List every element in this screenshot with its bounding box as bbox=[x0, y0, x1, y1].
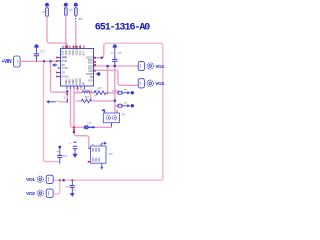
svg-text:C?: C? bbox=[66, 185, 70, 189]
resistor R4 bbox=[94, 87, 106, 96]
ground flag mid bbox=[69, 142, 77, 158]
svg-text:R?: R? bbox=[98, 87, 102, 91]
power arrow B1 bbox=[45, 3, 49, 8]
svg-text:SW2: SW2 bbox=[88, 62, 94, 64]
bead FB3 run3 bbox=[118, 104, 122, 107]
connector J4 VO1 bbox=[26, 175, 53, 183]
node dot COMP pin bbox=[96, 72, 101, 75]
capacitor C2 above VG1 bbox=[111, 44, 118, 66]
IC U2 left-bottom pin bbox=[88, 161, 91, 163]
svg-text:C?: C? bbox=[40, 49, 44, 53]
IC U1 left pins bbox=[58, 58, 61, 77]
junction dots IC left pins bbox=[56, 56, 58, 77]
inductor PL1 body bbox=[46, 8, 49, 16]
svg-text:VDD1: VDD1 bbox=[73, 49, 75, 56]
net tick VIN a bbox=[43, 60, 45, 62]
ferrite bead FB1 body bbox=[64, 8, 67, 15]
wire x107.6 vertical bbox=[107, 66, 109, 93]
svg-text:SS: SS bbox=[62, 72, 66, 74]
svg-text:U?: U? bbox=[109, 152, 113, 156]
svg-text:R?: R? bbox=[85, 95, 89, 99]
connector J1 +VIN bbox=[2, 56, 21, 67]
junction dots IC top pins bbox=[65, 46, 81, 48]
svg-text:VCC: VCC bbox=[80, 50, 82, 55]
net tick VIN b bbox=[50, 60, 52, 62]
pin dash below drop B bbox=[66, 90, 68, 102]
svg-text:+: + bbox=[69, 142, 71, 146]
wire pin77 stub to run1 bbox=[77, 89, 79, 93]
svg-text:+VIN: +VIN bbox=[2, 59, 12, 65]
svg-text:PGND: PGND bbox=[80, 78, 82, 85]
svg-text:VIN1: VIN1 bbox=[62, 50, 64, 56]
wire VIN net bbox=[20, 60, 57, 62]
wire pin81 corner to run2 bbox=[81, 88, 91, 101]
svg-text:VG2: VG2 bbox=[155, 81, 164, 87]
label R3 bbox=[79, 17, 83, 21]
IC U1 right pin labels bbox=[86, 57, 94, 82]
wire big loop net bbox=[54, 43, 163, 180]
IC U2 body bbox=[91, 145, 107, 164]
net tick x74 bbox=[73, 131, 75, 133]
svg-text:VO1: VO1 bbox=[26, 177, 35, 183]
wire run3 bbox=[115, 105, 118, 107]
svg-text:VIN3: VIN3 bbox=[69, 50, 71, 56]
IC U2 left-top pin bbox=[88, 147, 90, 149]
arrow out1 bbox=[123, 90, 131, 95]
net tick x107.6 top bbox=[107, 65, 109, 67]
label PL1 bbox=[42, 10, 46, 14]
junction dots IC right pins bbox=[94, 61, 96, 72]
IC U2 top-right arrow bbox=[102, 142, 107, 146]
svg-text:VG2: VG2 bbox=[88, 71, 93, 73]
bead FB2 run1 bbox=[118, 91, 122, 94]
label U1 refdes bbox=[94, 89, 98, 93]
wire run2 bbox=[76, 100, 114, 102]
resistor R5 bbox=[82, 95, 92, 103]
IC U1 right pins bbox=[94, 58, 96, 71]
IC U1 top pins bbox=[63, 46, 84, 49]
label U2 bbox=[109, 152, 113, 156]
connector J3 VG2 bbox=[138, 79, 164, 88]
wire VG2 net bbox=[96, 70, 138, 85]
junction dot IC bottom pin bbox=[76, 87, 78, 89]
junction dot x74 low bbox=[73, 129, 75, 131]
label C1 bbox=[40, 49, 44, 53]
svg-text:EP: EP bbox=[84, 81, 86, 85]
inductor L2 bbox=[82, 91, 92, 93]
wire capV down bbox=[114, 67, 116, 113]
wire run1 bbox=[75, 92, 118, 94]
IC U1 bottom pins bbox=[67, 86, 85, 89]
IC U1 body bbox=[61, 49, 94, 87]
arrow out2 bbox=[123, 103, 131, 108]
svg-text:COMP: COMP bbox=[86, 74, 93, 76]
svg-text:GND2: GND2 bbox=[70, 78, 72, 85]
svg-text:VOS: VOS bbox=[88, 80, 93, 82]
svg-text:C?: C? bbox=[118, 51, 122, 55]
svg-text:C?: C? bbox=[63, 154, 67, 158]
svg-text:L?: L? bbox=[88, 121, 92, 125]
IC U1 top pin labels bbox=[62, 49, 85, 56]
IC U1 label U? bbox=[62, 55, 66, 59]
svg-text:651-1316-A0: 651-1316-A0 bbox=[95, 23, 151, 34]
svg-text:EN: EN bbox=[62, 65, 66, 67]
svg-text:L?: L? bbox=[42, 10, 46, 14]
label C2 bbox=[118, 51, 122, 55]
capacitor C1 on VIN bbox=[34, 44, 39, 61]
label VG2 net bbox=[113, 89, 119, 93]
IC U1 left pin labels bbox=[62, 57, 69, 78]
net tick pin1 wire bbox=[94, 57, 103, 59]
power arrow B3 bbox=[74, 3, 78, 8]
bead FB4 run4 bbox=[84, 121, 95, 129]
wire VG1 net bbox=[96, 65, 138, 67]
junction dot VO riser bbox=[59, 179, 61, 181]
label near pin dash bbox=[64, 96, 66, 100]
svg-text:VG1: VG1 bbox=[155, 64, 164, 70]
wire IC pin1 to loop corner bbox=[96, 45, 104, 58]
junction dot x74 run4 bbox=[73, 126, 75, 128]
title 651-1316-A0 bbox=[95, 23, 151, 34]
IC U1 bottom pin numbers bbox=[66, 78, 86, 85]
junction dot VO1-C5 bbox=[71, 179, 73, 181]
port arrow left pin EN bbox=[52, 63, 58, 66]
port arrow S1 top-left bbox=[101, 109, 117, 113]
resistor R3 body bbox=[74, 8, 77, 22]
svg-text:PVIN: PVIN bbox=[62, 61, 68, 63]
node dot out2 bbox=[131, 104, 134, 107]
switch S1 body bbox=[103, 113, 119, 123]
label C5 bbox=[66, 185, 70, 189]
svg-text:PGND: PGND bbox=[77, 78, 79, 85]
wire run4 bbox=[71, 89, 112, 127]
svg-text:AGND: AGND bbox=[62, 75, 69, 78]
svg-text:GND1: GND1 bbox=[66, 78, 68, 85]
wire VO2 net bbox=[53, 180, 60, 194]
port arrow run2 left bbox=[46, 100, 67, 103]
junction dot run1 x107.6 bbox=[107, 92, 109, 94]
svg-text:VIN2: VIN2 bbox=[66, 50, 68, 56]
svg-text:FB: FB bbox=[90, 77, 93, 79]
power branch B2 wire bbox=[65, 16, 67, 49]
svg-text:F?: F? bbox=[69, 8, 73, 12]
svg-text:GND3: GND3 bbox=[73, 78, 75, 85]
label S1 bbox=[122, 113, 126, 117]
svg-text:S?: S? bbox=[122, 113, 126, 117]
wire dark vertical x74 bbox=[74, 89, 91, 148]
net tick VG1-C2 bbox=[114, 65, 116, 67]
power branch B3 wire bbox=[75, 23, 77, 49]
wire drop B to mid bbox=[51, 62, 68, 99]
svg-text:VDD2: VDD2 bbox=[76, 49, 78, 56]
power branch B1 wire bbox=[47, 17, 67, 49]
svg-text:R?: R? bbox=[79, 17, 83, 21]
svg-text:PVIN: PVIN bbox=[62, 57, 68, 59]
svg-text:VO2: VO2 bbox=[26, 191, 35, 197]
node dot out1 bbox=[131, 91, 134, 94]
connector J5 VO2 bbox=[26, 189, 53, 197]
capacitor C4 lower left bbox=[57, 146, 63, 164]
switch S1 bottom pin bbox=[111, 123, 113, 128]
svg-text:SYNC: SYNC bbox=[62, 68, 69, 70]
label FB1 bbox=[69, 8, 73, 12]
label C4 bbox=[63, 154, 67, 158]
power arrow B2 bbox=[64, 3, 68, 8]
wire drop A to lower left bbox=[44, 62, 60, 162]
capacitor C5 on VO1 bbox=[70, 180, 76, 197]
connector J2 VG1 bbox=[138, 61, 164, 70]
net tick capV run2 bbox=[114, 100, 116, 102]
svg-text:BST: BST bbox=[83, 50, 85, 55]
IC U2 bottom-right arrow bbox=[100, 163, 103, 169]
net tick VO1 bbox=[63, 179, 65, 181]
